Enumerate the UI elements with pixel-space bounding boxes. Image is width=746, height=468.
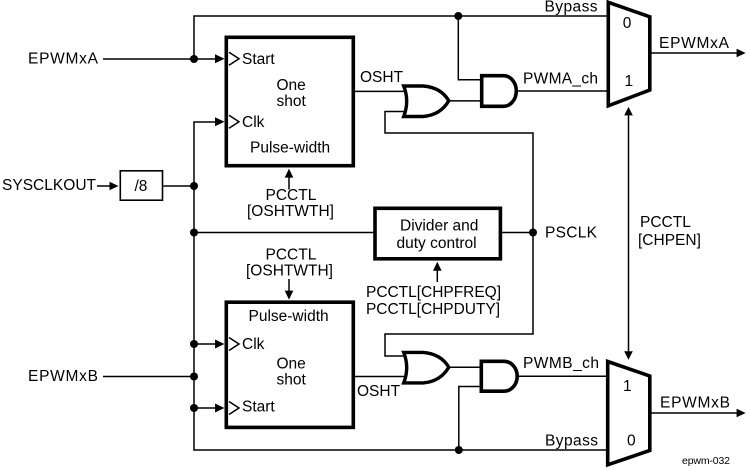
svg-text:PCCTL[CHPFREQ]: PCCTL[CHPFREQ]	[366, 284, 501, 301]
svg-text:One: One	[277, 356, 306, 373]
svg-text:0: 0	[623, 15, 632, 32]
wire PCCTL[CHPEN] select line between muxes	[628, 115, 630, 353]
arrowhead into Start of one-shot 2	[215, 404, 225, 413]
block U2 pulse-width/one-shot (bottom)	[226, 302, 353, 427]
svg-text:[CHPEN]: [CHPEN]	[638, 232, 701, 249]
block U3 divider and duty control	[375, 208, 500, 258]
mux M1 (top, EPWMxA)	[608, 2, 650, 106]
arrowhead into Clk of one-shot 1	[215, 117, 225, 126]
pin Start chevron (top block)	[229, 52, 239, 65]
svg-text:Clk: Clk	[242, 114, 265, 131]
wire O2 output to AND A2	[449, 366, 482, 368]
svg-text:Pulse-width: Pulse-width	[250, 140, 330, 157]
svg-text:shot: shot	[277, 93, 307, 110]
svg-text:PCCTL: PCCTL	[640, 214, 691, 231]
svg-text:Bypass: Bypass	[545, 0, 598, 16]
svg-text:EPWMxB: EPWMxB	[660, 395, 730, 412]
svg-text:/8: /8	[135, 178, 148, 195]
wire branch to bottom Clk	[194, 343, 216, 345]
and-gate A1 (top)	[482, 76, 517, 107]
wire OSHT output of bottom block to OR O2	[353, 376, 409, 378]
arrowhead select into mux M2 (down)	[624, 351, 633, 360]
svg-text:EPWMxA: EPWMxA	[659, 35, 730, 52]
svg-text:One: One	[277, 77, 306, 94]
svg-text:[OSHTWTH]: [OSHTWTH]	[247, 203, 334, 220]
node junction EPWMxA/bypass	[190, 55, 198, 63]
svg-text:Start: Start	[242, 399, 275, 416]
mux M2 (bottom, EPWMxB)	[608, 362, 650, 465]
wire branch to bottom Start	[194, 407, 216, 409]
pin Clk chevron (bottom block)	[229, 338, 239, 351]
node junction bottom Clk	[190, 340, 198, 348]
arrowhead select into mux M1 (up)	[624, 107, 633, 116]
svg-text:PWMB_ch: PWMB_ch	[523, 355, 599, 372]
pin Start chevron (bottom block)	[229, 402, 239, 415]
svg-text:Clk: Clk	[242, 336, 265, 353]
svg-text:OSHT: OSHT	[357, 383, 401, 400]
wire EPWMxA input to one-shot Start	[103, 58, 217, 60]
svg-text:Pulse-width: Pulse-width	[249, 308, 329, 325]
svg-text:Divider and: Divider and	[400, 218, 478, 235]
node junction /8 output on rail	[190, 182, 198, 190]
wire PSCLK distribution: OR O1 lower input down to OR O2 upper input	[385, 112, 533, 357]
divider block /8	[120, 171, 162, 200]
svg-text:EPWMxA: EPWMxA	[28, 51, 99, 68]
wire A2 output PWMB_ch to mux 1 input	[517, 375, 608, 377]
wire bypass branch to AND A1 upper input	[458, 16, 481, 80]
svg-text:OSHT: OSHT	[360, 69, 404, 86]
svg-text:1: 1	[625, 73, 634, 90]
svg-text:PWMA_ch: PWMA_ch	[523, 71, 598, 88]
wire bypass branch to AND A2 lower input	[459, 387, 482, 451]
wire EPWMxB output	[650, 412, 737, 414]
svg-text:epwm-032: epwm-032	[682, 455, 730, 467]
wire A1 output PWMA_ch to mux 1 input	[516, 90, 608, 92]
node PSCLK junction	[529, 229, 537, 237]
or-gate O1 (top)	[404, 86, 449, 117]
svg-text:0: 0	[627, 433, 636, 450]
node junction EPWMxB on rail	[190, 373, 198, 381]
arrow PCCTL[OSHTWTH] into bottom block (down)	[288, 279, 290, 291]
wire O1 output to AND A1	[449, 100, 482, 102]
wire SYSCLKOUT to /8	[97, 185, 110, 187]
wire /8 output to clock rail	[163, 185, 194, 187]
wire divider output to PSCLK node	[500, 232, 533, 234]
node junction bypass/AND branch (bottom)	[455, 446, 463, 454]
svg-text:EPWMxB: EPWMxB	[28, 368, 98, 385]
wire EPWMxA output	[650, 52, 737, 54]
arrowhead into Start of one-shot 1	[215, 54, 225, 63]
arrowhead EPWMxB output	[737, 409, 746, 418]
wire clock rail vertical with bottom bypass rail to mux 0	[194, 122, 608, 450]
svg-text:SYSCLKOUT: SYSCLKOUT	[2, 177, 97, 194]
node junction divider feed	[190, 229, 198, 237]
svg-text:PCCTL: PCCTL	[266, 187, 317, 204]
svg-text:[OSHTWTH]: [OSHTWTH]	[246, 263, 333, 280]
arrow PCCTL[CHPFREQ]/[CHPDUTY] into divider (up)	[436, 270, 438, 282]
svg-text:1: 1	[623, 378, 632, 395]
arrowhead EPWMxA output	[737, 49, 746, 58]
arrow PCCTL[OSHTWTH] into top block (up)	[288, 177, 290, 190]
node junction bypass/AND branch (top)	[454, 12, 462, 20]
pin Clk chevron (top block)	[229, 115, 239, 128]
wire OSHT output of top block to OR O1	[353, 90, 409, 92]
node junction bottom Start	[190, 404, 198, 412]
wire EPWMxB input	[103, 376, 194, 378]
and-gate A2 (bottom)	[481, 361, 517, 391]
arrowhead into Clk of one-shot 2	[215, 340, 225, 349]
or-gate O2 (bottom)	[404, 352, 449, 383]
svg-text:Start: Start	[242, 51, 275, 68]
wire rail to divider block input	[194, 232, 375, 234]
svg-text:PCCTL: PCCTL	[266, 247, 317, 264]
block U1 one-shot/pulse-width (top)	[226, 37, 353, 165]
svg-text:Bypass: Bypass	[545, 433, 598, 450]
svg-text:duty control: duty control	[397, 235, 477, 252]
svg-text:PCCTL[CHPDUTY]: PCCTL[CHPDUTY]	[366, 301, 500, 318]
arrowhead into /8 box	[110, 182, 119, 191]
svg-text:PSCLK: PSCLK	[545, 225, 598, 242]
wire EPWMxA bypass riser and top Bypass rail to mux 0	[194, 16, 608, 59]
svg-text:shot: shot	[277, 372, 307, 389]
